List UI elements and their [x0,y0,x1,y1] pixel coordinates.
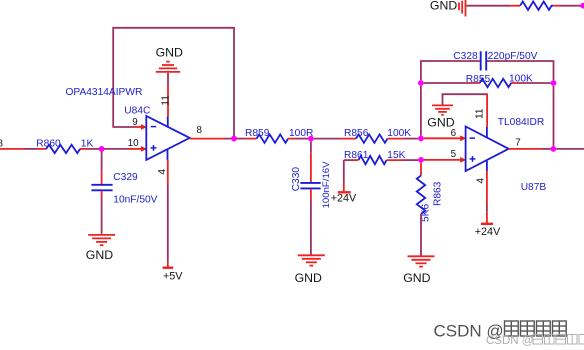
svg-text:TL084IDR: TL084IDR [498,117,544,128]
wire R859 to node C [288,138,308,140]
junction dot H [551,146,557,152]
wire to pin 10 [104,148,142,150]
svg-text:4: 4 [476,178,487,184]
svg-text:R855: R855 [466,74,491,85]
svg-text:R863: R863 [432,181,443,206]
svg-text:R859: R859 [245,128,270,139]
wire to R859 [237,138,257,140]
svg-text:C330: C330 [291,167,302,192]
resistor top right [520,2,553,10]
wire right column [553,61,555,146]
svg-text:1K: 1K [81,138,94,149]
svg-text:R860: R860 [36,138,61,149]
wire GND to pin 11 U87B [442,93,487,137]
op-amp U84C [146,116,189,160]
pin 10 arrow [141,146,147,152]
svg-text:GND: GND [403,271,430,285]
resistor R856 [356,134,388,142]
watermark CSDN secondary [486,335,584,348]
wire node A to C329 to GND [101,152,103,234]
svg-text:5K6: 5K6 [421,204,432,222]
resistor R855 [480,79,512,87]
GND sideways top right [459,0,466,17]
svg-text:C329: C329 [113,172,138,183]
svg-text:GND: GND [427,115,454,129]
svg-text:+24V: +24V [475,226,501,238]
wire pin 4 to +5V [167,150,169,267]
resistor R860 [46,145,80,153]
wire top right net [466,5,581,7]
wire R861 to node E [387,159,419,161]
wire pin 9 [113,126,142,128]
resistor R859 [257,134,289,142]
junction dot B [231,136,237,142]
svg-text:7: 7 [515,138,520,149]
svg-text:220pF/50V: 220pF/50V [488,51,538,62]
svg-text:+5V: +5V [163,271,183,283]
wire net IN8 left horizontal [0,148,99,150]
power +24V right [481,223,493,225]
svg-text:R856: R856 [344,128,369,139]
svg-text:11: 11 [474,108,485,119]
wire pin 7 output [509,148,551,150]
junction dot G [551,80,557,86]
junction dot E [418,157,424,163]
capacitor C328 [481,51,487,70]
wire pin 8 output [190,138,232,140]
pin 5 arrow [460,157,466,163]
svg-text:8: 8 [197,125,203,136]
resistor R863 vertical [420,163,422,176]
capacitor C329 [91,185,112,191]
wire R863 to GND [420,214,422,256]
svg-text:C328: C328 [453,51,478,62]
GND symbol top (inverted earth) [156,62,180,72]
svg-text:U84C: U84C [124,106,150,117]
ground symbol middle [298,255,325,265]
wire node C to C330 [310,142,312,183]
wire output to right edge [556,148,584,150]
wire R855 row [424,82,551,84]
pin 6 arrow [460,135,466,141]
svg-text:GND: GND [156,45,183,59]
svg-text:100K: 100K [387,128,411,139]
svg-text:11: 11 [160,95,171,106]
ground symbol left [88,235,115,245]
svg-text:6: 6 [451,128,457,139]
junction dot D [418,136,424,142]
junction dot A [99,146,105,152]
power +5V [163,267,174,269]
wire pin 4 U87B to +24V [486,161,488,223]
svg-text:10: 10 [128,138,139,149]
GND symbol U87B pin11 [432,105,453,115]
svg-text:CSDN @: CSDN @ [486,335,533,347]
junction dot F [418,80,424,86]
svg-text:5: 5 [451,149,457,160]
svg-text:9: 9 [132,117,137,128]
svg-text:+24V: +24V [331,192,357,204]
resistor R861 with +24V [344,160,359,191]
op-amp U87B [466,127,509,172]
svg-text:4: 4 [157,169,168,175]
svg-text:GND: GND [430,0,457,12]
junction dot edge [580,3,584,9]
svg-text:10nF/50V: 10nF/50V [113,194,157,205]
wire left column [420,61,422,136]
capacitor C330 [300,183,320,189]
wire R856 to node D [388,138,419,140]
wire C330 to GND [310,189,312,254]
svg-text:R861: R861 [344,150,369,161]
watermark CSDN main [434,321,567,340]
svg-text:U87B: U87B [521,182,547,193]
wire to R856 [314,138,356,140]
wire C328 row [420,60,554,62]
junction dot C [308,136,314,142]
wire GND to pin 11 [167,73,169,127]
svg-text:GND: GND [295,271,322,285]
wire pin 5 [424,159,462,161]
ground symbol right [408,256,435,266]
power +24V left [338,191,351,193]
svg-text:100K: 100K [509,74,533,85]
wire pin 6 [424,137,462,139]
pin 9 arrow [141,124,147,130]
feedback loop rectangle wire (U84C) [113,28,234,136]
svg-text:OPA4314AIPWR: OPA4314AIPWR [66,87,143,98]
svg-text:GND: GND [86,248,113,262]
